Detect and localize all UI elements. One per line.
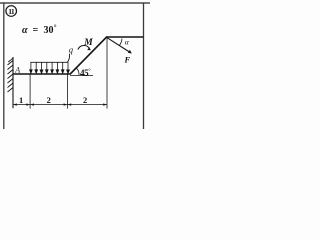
svg-text:A: A xyxy=(14,66,20,75)
svg-text:2: 2 xyxy=(47,95,51,105)
beam AB horizontal member xyxy=(13,73,71,75)
extension line at x=67.3 xyxy=(66,74,68,109)
svg-text:M: M xyxy=(83,38,93,48)
dimension line segment 1 xyxy=(13,104,30,106)
45deg angle arc xyxy=(77,68,80,75)
extension line at x=30 xyxy=(29,74,31,109)
svg-text:q: q xyxy=(69,45,74,55)
45deg reference line xyxy=(70,74,93,76)
problem number circle 11 xyxy=(6,6,17,17)
moment M arc arrow xyxy=(78,45,90,49)
extension line below peak xyxy=(106,39,108,109)
diagonal member 45deg xyxy=(70,37,107,74)
frame left border xyxy=(3,3,5,130)
dimension line segment 2b xyxy=(67,104,107,106)
q label leader line xyxy=(67,54,69,63)
alpha angle arc xyxy=(120,39,123,46)
frame top border xyxy=(0,2,150,4)
distributed load arrows xyxy=(30,62,70,73)
top horizontal member xyxy=(106,36,144,38)
force F line xyxy=(107,37,130,52)
force F arrowhead xyxy=(128,50,132,54)
svg-text:2: 2 xyxy=(83,95,87,105)
svg-text:F: F xyxy=(124,55,131,65)
svg-text:11: 11 xyxy=(8,7,15,16)
wall hatching xyxy=(8,58,14,92)
dimension line segment 2 xyxy=(30,104,67,106)
wall line at A xyxy=(12,57,14,108)
svg-text:1: 1 xyxy=(19,95,23,105)
distributed load q top line xyxy=(30,61,68,63)
frame right border xyxy=(143,3,145,130)
